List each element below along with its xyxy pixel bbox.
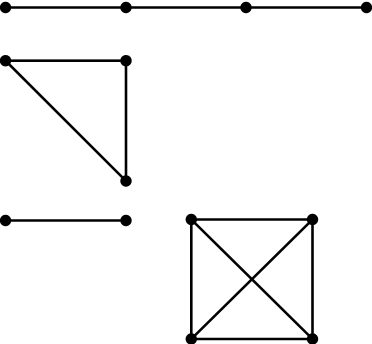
wire K4 left edge <box>190 220 193 340</box>
node K4 bottom-left <box>186 333 197 344</box>
node K4 top-right <box>307 214 318 225</box>
wire K4 right edge <box>311 220 314 340</box>
node P4 v2 <box>120 2 131 13</box>
node P4 v4 <box>361 2 372 13</box>
wire P4 edge v2-v3 <box>126 6 246 9</box>
node P4 v1 <box>0 2 11 13</box>
wire triangle top edge <box>6 59 127 62</box>
wire triangle hypotenuse <box>6 61 127 181</box>
wire single edge <box>6 219 127 222</box>
wire K4 bottom edge <box>191 338 312 341</box>
node edge right <box>120 215 131 226</box>
wire P4 edge v3-v4 <box>246 6 367 9</box>
wire K4 top edge <box>191 218 312 221</box>
wire K4 diagonal TL-BR <box>191 220 312 340</box>
wire triangle right edge <box>125 61 128 181</box>
node K4 top-left <box>186 214 197 225</box>
wire P4 edge v1-v2 <box>6 6 127 9</box>
node K4 bottom-right <box>307 333 318 344</box>
node P4 v3 <box>240 2 251 13</box>
node triangle bottom <box>120 175 131 186</box>
wire K4 diagonal BL-TR <box>191 220 312 340</box>
node triangle top-left <box>0 55 11 66</box>
node triangle top-right <box>120 55 131 66</box>
node edge left <box>0 215 11 226</box>
